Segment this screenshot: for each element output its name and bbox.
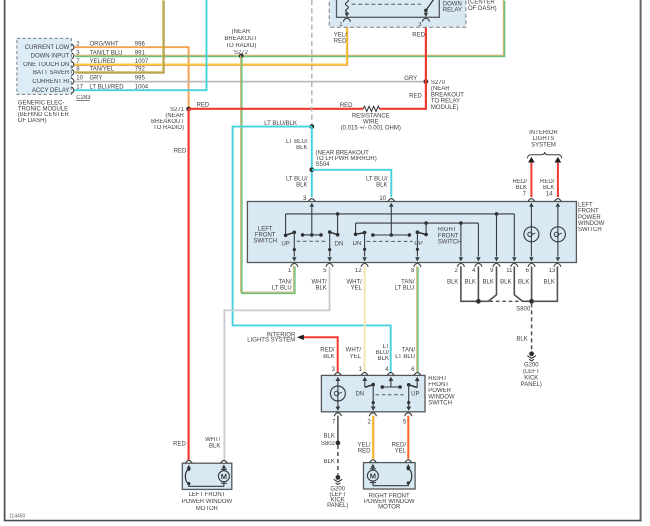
svg-text:YEL/: YEL/ [357, 442, 370, 448]
right motor pin (RED/YEL side) [405, 460, 412, 463]
master pin 3 input contact bar [301, 203, 323, 237]
splice S270 (near breakout to relay module) [424, 79, 465, 111]
GEM pin 2 ORG/WHT circuit 996 [72, 42, 146, 51]
right section UP switch to pin 8 [414, 230, 426, 261]
master internal feed bus A [284, 212, 514, 237]
svg-text:LEFT FRONT: LEFT FRONT [188, 492, 225, 498]
master pin 13 [544, 264, 561, 286]
svg-text:SWITCH: SWITCH [428, 400, 452, 406]
lower switch pin 7 [332, 413, 341, 426]
svg-text:POWER: POWER [428, 388, 451, 394]
svg-text:RED/: RED/ [513, 179, 528, 185]
wire ORG/WHT 996 from GEM pin 2 to splice S271 [75, 47, 189, 107]
svg-text:POWER: POWER [578, 215, 601, 221]
svg-text:INTERIOR: INTERIOR [529, 130, 558, 136]
wire BLK master pin 11 to ground bus [514, 266, 529, 301]
svg-text:RED: RED [409, 94, 422, 100]
wire RED/BLK master pin 7 to interior lights system [513, 157, 535, 197]
relay pin 3 [412, 18, 429, 38]
wire TAN/LT BLU master pin 8 to right front switch pin 6 [395, 266, 418, 373]
svg-text:SYSTEM: SYSTEM [531, 142, 556, 148]
wire YEL/RED lower switch pin 2 to right front motor [357, 416, 373, 459]
svg-text:RED: RED [340, 103, 353, 109]
label LT BLU/BLK at right front switch pin 4 [376, 344, 390, 362]
wire RED from S271 down to left front power window motor [173, 109, 188, 460]
master pin 9 [483, 264, 501, 286]
svg-text:(NEAR: (NEAR [232, 29, 251, 35]
svg-text:RED: RED [358, 449, 371, 455]
master internal bus B [354, 221, 479, 236]
lower switch pin 6 [411, 367, 421, 375]
lower switch UP unit (pins 6-5) [406, 377, 419, 411]
ground bus junction dot (pins 2/4) [476, 299, 481, 304]
svg-text:RED: RED [174, 149, 187, 155]
svg-text:YEL: YEL [395, 449, 407, 455]
svg-text:M: M [221, 472, 227, 481]
wire BLK lower switch pin 7 to splice S802 [324, 416, 338, 441]
master pin 11 [500, 264, 518, 286]
master pin 3 [303, 196, 315, 202]
lower switch pin 4 [385, 367, 394, 375]
svg-text:TO RELAY: TO RELAY [431, 99, 460, 105]
svg-text:WINDOW: WINDOW [578, 221, 605, 227]
right motor M symbol [367, 464, 378, 486]
svg-text:RED/: RED/ [320, 348, 335, 354]
svg-text:DN: DN [355, 392, 364, 398]
master pin 5 [311, 264, 333, 292]
wire RED from relay pin 3 down through S270 to resistance wire [380, 21, 426, 108]
wire LT BLU/BLK from S504 to master switch pin 10 [312, 170, 392, 198]
svg-text:GRY: GRY [404, 76, 417, 82]
svg-text:UP: UP [414, 241, 422, 247]
svg-text:RELAY: RELAY [443, 8, 462, 14]
wire RED/BLK master pin 14 to interior lights system [540, 157, 561, 197]
wire BLK master pin 4 to S800 [477, 266, 479, 299]
left front power window switch (master) box [247, 202, 604, 263]
wire LT BLU/BLK from junction down to S504 and master switch pin 3 [286, 127, 312, 198]
lower switch DN unit (pins 1-2) [355, 377, 375, 411]
svg-text:S800: S800 [516, 307, 531, 313]
GEM pin 8 TAN/YEL circuit 792 [72, 67, 146, 76]
wire LT BLU/RED 1004 from GEM pin 17 up to top of page [75, 0, 207, 90]
svg-text:CURRENT HI: CURRENT HI [32, 79, 69, 85]
left motor M symbol [218, 464, 229, 486]
lower switch pin 5 [403, 413, 412, 426]
svg-text:SWITCH: SWITCH [438, 240, 462, 246]
svg-text:WINDOW: WINDOW [428, 394, 455, 400]
svg-text:PANEL): PANEL) [521, 382, 542, 388]
svg-text:ONE TOUCH DN: ONE TOUCH DN [23, 62, 69, 68]
GEM pin 7 YEL/RED circuit 1007 [72, 59, 149, 68]
connector C283 [76, 95, 91, 101]
wire LT BLU/BLK left branch to right front power window switch pin 4 [233, 127, 391, 373]
splice S504 (near breakout to LH pwr mirror) [309, 150, 376, 172]
svg-text:RED/: RED/ [392, 442, 407, 448]
svg-text:UP: UP [411, 392, 419, 398]
svg-text:G200: G200 [524, 363, 539, 369]
svg-text:BLK: BLK [315, 286, 326, 292]
left front power window motor [182, 463, 233, 512]
svg-text:SWITCH: SWITCH [253, 238, 277, 244]
splice S272 (near breakout to radio) [224, 29, 257, 58]
left front switch section label [253, 226, 277, 244]
svg-text:WHT/: WHT/ [346, 348, 362, 354]
lower switch pin 3 [332, 367, 341, 375]
svg-text:RED/: RED/ [540, 179, 555, 185]
lower switch mechanical link (dashed) [376, 394, 404, 396]
svg-text:BLK: BLK [447, 280, 458, 286]
relay coil (pin 1 side) [345, 0, 350, 17]
right section DN switch to pin 12 [353, 231, 367, 262]
master pin 10 input contact bar [371, 203, 411, 237]
dashed BLK wire from S800 down to ground G200 [516, 303, 531, 351]
illumination bulb (pins 7-6) [524, 203, 539, 262]
wire RED from resistance wire to S271 [189, 103, 364, 109]
resistance wire 0.015 +/- 0.001 ohm [341, 106, 401, 131]
right front switch section label [438, 227, 462, 245]
svg-text:LIGHTS SYSTEM: LIGHTS SYSTEM [247, 338, 295, 344]
svg-text:TO RADIO): TO RADIO) [225, 43, 256, 49]
wire RED/YEL lower switch pin 5 to right front motor [392, 416, 409, 459]
svg-text:YEL: YEL [350, 354, 362, 360]
svg-text:ACCY DELAY: ACCY DELAY [32, 88, 69, 94]
master pin 8 [395, 264, 421, 292]
master pin 6 [518, 264, 535, 286]
GEM pin 10 GRY circuit 995 [72, 76, 146, 85]
svg-text:12: 12 [355, 268, 362, 274]
wire BLK master pin 6 to splice S800 [531, 266, 533, 299]
svg-text:LT BLU: LT BLU [272, 286, 292, 292]
svg-text:BLK: BLK [465, 280, 476, 286]
master internal drop to pin 11 [512, 214, 517, 262]
wire GRY 995 from GEM pin 10 to splice S270 [75, 76, 426, 82]
svg-text:RED: RED [173, 442, 186, 448]
svg-text:(0.015 +/- 0.001 OHM): (0.015 +/- 0.001 OHM) [341, 126, 401, 132]
svg-text:MODULE): MODULE) [431, 105, 459, 111]
interior lights system label with brace [528, 130, 562, 158]
illumination bulb (pins 14-13) [550, 203, 565, 262]
svg-text:BLK: BLK [323, 354, 334, 360]
svg-text:BLK: BLK [378, 356, 389, 362]
svg-text:S504: S504 [316, 162, 331, 168]
wire BLK master pin 13 to S800 [534, 266, 558, 301]
wire TAN/YEL 792 from GEM pin 8 up to top of page [74, 0, 164, 73]
svg-text:UP: UP [281, 241, 289, 247]
svg-text:114450: 114450 [9, 514, 26, 520]
svg-text:RESISTANCE: RESISTANCE [352, 113, 390, 119]
wire WHT/BLK master pin 5 to left front motor [205, 266, 329, 460]
svg-text:TAN/: TAN/ [402, 348, 416, 354]
svg-text:DN: DN [335, 241, 344, 247]
svg-text:CURRENT LOW: CURRENT LOW [25, 45, 70, 51]
svg-text:BLK: BLK [516, 337, 527, 343]
wire RED/BLK right front switch pin 3 to interior lights system (arrow) [247, 332, 337, 372]
svg-text:MOTOR: MOTOR [196, 506, 219, 512]
svg-text:KICK: KICK [524, 376, 538, 382]
left motor pin (RED side) [185, 460, 192, 463]
ground G200 (left kick panel), left branch [327, 475, 348, 509]
svg-text:BLK: BLK [544, 280, 555, 286]
svg-text:14: 14 [546, 192, 553, 198]
svg-text:TO RADIO): TO RADIO) [153, 125, 184, 131]
svg-text:(LEFT: (LEFT [523, 369, 540, 375]
right section mechanical link (dashed) [367, 240, 413, 242]
svg-text:FRONT: FRONT [438, 233, 459, 239]
svg-text:LEFT: LEFT [578, 203, 593, 209]
relay switch contact (pin 3 side) [424, 0, 434, 17]
svg-text:YEL/: YEL/ [334, 32, 347, 38]
svg-text:LT BLU: LT BLU [395, 354, 415, 360]
master pin 10 [379, 196, 394, 202]
relay: power window DOWN RELAY (center of dash) [329, 0, 496, 27]
svg-text:BATT SAVER: BATT SAVER [33, 70, 70, 76]
svg-text:DOWN INPUT: DOWN INPUT [31, 54, 70, 60]
left section DN switch to pin 5 [327, 230, 343, 261]
svg-text:FRONT: FRONT [578, 209, 599, 215]
splice S271 (near breakout to radio) [151, 107, 191, 132]
lower switch pin 2 [367, 413, 376, 426]
master internal drop to pin 9 [494, 212, 499, 261]
svg-text:POWER WINDOW: POWER WINDOW [182, 499, 233, 505]
svg-text:BLK: BLK [209, 444, 220, 450]
svg-text:BREAKOUT: BREAKOUT [431, 92, 464, 98]
svg-text:RED: RED [197, 103, 210, 109]
svg-text:WIRE: WIRE [363, 119, 379, 125]
relay pin 1 [334, 18, 351, 44]
svg-text:WHT/: WHT/ [205, 437, 221, 443]
splice S802 [321, 441, 340, 448]
svg-text:(NEAR: (NEAR [431, 86, 450, 92]
svg-text:MOTOR: MOTOR [378, 505, 401, 511]
svg-text:OF DASH): OF DASH) [468, 6, 497, 12]
splice S800 [516, 299, 534, 313]
svg-text:S802: S802 [321, 441, 336, 447]
svg-text:BLK: BLK [324, 433, 335, 439]
svg-text:LIGHTS: LIGHTS [533, 136, 555, 142]
svg-text:11: 11 [506, 268, 513, 274]
svg-text:RIGHT: RIGHT [428, 376, 447, 382]
svg-text:BLK: BLK [518, 280, 529, 286]
svg-text:OF DASH): OF DASH) [18, 118, 47, 124]
junction of LT BLU/BLK wires [264, 121, 314, 129]
left motor direction arc [185, 465, 224, 487]
lower switch illumination bulb (pins 3-7) [330, 377, 345, 411]
right front power window motor [364, 463, 416, 511]
master pin 2 [447, 264, 465, 286]
GEM pin 17 LT BLU/RED circuit 1004 [72, 85, 149, 94]
master pin 4 [465, 264, 482, 286]
generic electronic module (GEM) [17, 38, 71, 124]
dashed circuit continuation line into junction above S504 [311, 0, 313, 125]
left section UP switch to pin 1 [281, 231, 296, 262]
svg-text:DOWN: DOWN [443, 1, 462, 7]
master internal drop to pin 4 [476, 223, 481, 261]
wire TAN/LT BLU 991 from GEM pin 3 through S272, up at right to top of page [74, 0, 505, 57]
svg-text:(CENTER: (CENTER [468, 0, 495, 6]
right motor pin (YEL/RED side) [370, 460, 377, 463]
dashed ground bus segment between junctions [490, 300, 523, 302]
wire TAN/LT BLU 991 from S272 down to master switch pin 1 [241, 55, 295, 293]
master pin 12 [346, 264, 368, 292]
svg-text:13: 13 [549, 268, 556, 274]
wire BLK master pin 2 to ground bus [461, 266, 477, 301]
svg-text:BLK: BLK [500, 280, 511, 286]
lower switch pin 1 [359, 367, 368, 375]
svg-text:DN: DN [353, 241, 362, 247]
relay internal mechanical link (dashed) [352, 3, 421, 5]
svg-text:PANEL): PANEL) [327, 503, 348, 509]
left section mechanical link (dashed) [297, 240, 328, 242]
svg-text:SWITCH: SWITCH [578, 227, 602, 233]
dashed BLK wire from S802 to ground G200 [324, 445, 338, 475]
svg-text:10: 10 [379, 196, 386, 202]
master pin 14 [546, 192, 561, 202]
master internal drop to pin 2 [459, 221, 464, 261]
right front power window switch box [321, 375, 455, 411]
GEM pin 3 TAN/LT BLU circuit 991 [72, 50, 146, 59]
wire YEL/RED 1007 from GEM pin 7 to down relay pin 1 [75, 21, 348, 65]
svg-text:RED: RED [412, 32, 425, 38]
svg-text:M: M [370, 471, 376, 480]
ground G200 (left kick panel), right branch [521, 351, 542, 388]
right motor direction arc [373, 464, 412, 486]
left motor pin (WHT/BLK side) [221, 460, 228, 463]
svg-text:YEL: YEL [350, 286, 362, 292]
wire BLK master pin 9 to ground bus [481, 266, 497, 301]
svg-text:BLK: BLK [376, 183, 387, 189]
master pin 7 [523, 192, 535, 202]
wire WHT/YEL master pin 12 to right front switch pin 1 [346, 266, 365, 372]
svg-text:BLK: BLK [543, 185, 554, 191]
svg-text:BLK: BLK [296, 145, 307, 151]
svg-text:RED: RED [334, 39, 347, 45]
lower switch pin 4 contact bar [381, 377, 402, 389]
svg-text:BLK: BLK [516, 185, 527, 191]
master pin 1 [272, 264, 298, 292]
svg-text:BLK: BLK [483, 280, 494, 286]
svg-text:RIGHT: RIGHT [438, 227, 457, 233]
svg-text:LT BLU: LT BLU [395, 286, 415, 292]
svg-text:BLK: BLK [324, 459, 335, 465]
svg-text:BREAKOUT: BREAKOUT [224, 36, 257, 42]
svg-text:S272: S272 [234, 50, 249, 56]
svg-text:S270: S270 [431, 80, 446, 86]
svg-text:BLK: BLK [296, 183, 307, 189]
svg-text:FRONT: FRONT [428, 382, 449, 388]
